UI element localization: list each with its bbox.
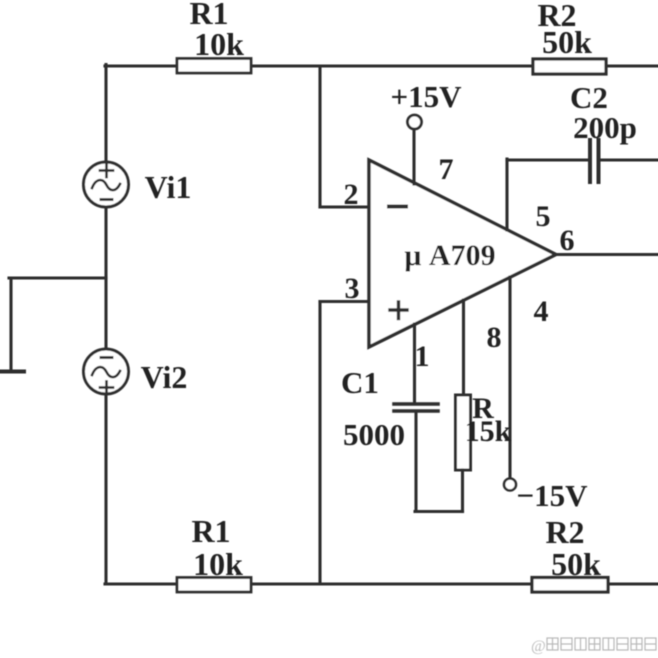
wire pin8 vertical to R bbox=[462, 300, 465, 396]
op-amp U1 triangle bbox=[369, 160, 556, 347]
svg-text:8: 8 bbox=[487, 321, 502, 354]
resistor R1 top body bbox=[177, 59, 251, 74]
source Vi1 circle bbox=[84, 162, 129, 207]
source Vi2 plus bbox=[100, 382, 113, 395]
wire pin4 vertical to -15V bbox=[508, 277, 511, 478]
source Vi2 circle bbox=[84, 349, 129, 394]
source Vi2 sine bbox=[92, 367, 120, 377]
svg-text:Vi1: Vi1 bbox=[145, 169, 192, 205]
resistor R1 bottom body bbox=[177, 578, 251, 593]
source Vi1 sine bbox=[92, 180, 120, 190]
ground bbox=[0, 370, 24, 374]
svg-text:R1: R1 bbox=[191, 513, 230, 549]
svg-text:50k: 50k bbox=[542, 24, 592, 60]
op-amp plus input marker bbox=[390, 302, 407, 319]
wire top horizontal bus bbox=[105, 64, 658, 67]
svg-text:4: 4 bbox=[534, 295, 549, 328]
wire pin7 V+ supply bbox=[412, 129, 415, 184]
wire pin2 vertical from top bus bbox=[318, 66, 321, 207]
svg-text:10k: 10k bbox=[193, 546, 243, 582]
svg-text:1: 1 bbox=[415, 340, 430, 373]
svg-text:@: @ bbox=[531, 638, 546, 655]
wire pin3 horizontal from op-amp bbox=[320, 300, 369, 303]
source Vi1 plus bbox=[100, 165, 113, 178]
wire ground branch horizontal bbox=[9, 276, 106, 279]
wire ground branch vertical bbox=[9, 278, 12, 370]
svg-text:10k: 10k bbox=[194, 26, 244, 62]
svg-text:7: 7 bbox=[439, 153, 454, 186]
wire pin5 vertical bbox=[505, 159, 508, 230]
wire below R bbox=[461, 470, 464, 512]
wire pin3 vertical to bottom bus bbox=[318, 302, 321, 585]
resistor R2 top body bbox=[533, 59, 606, 74]
svg-text:15k: 15k bbox=[465, 415, 512, 448]
capacitor C2 bbox=[590, 140, 599, 182]
svg-text:μ A709: μ A709 bbox=[404, 239, 495, 272]
source Vi2 minus bbox=[101, 356, 112, 359]
wire pin2 horizontal into op-amp bbox=[320, 205, 369, 208]
svg-text:6: 6 bbox=[560, 224, 575, 257]
resistor R2 bottom body bbox=[532, 578, 608, 593]
wire C2 left horizontal bbox=[507, 158, 588, 161]
wire C2 right horizontal bbox=[601, 158, 658, 161]
resistor R 15k body bbox=[456, 395, 471, 470]
node -15V terminal circle bbox=[504, 479, 516, 491]
svg-text:+15V: +15V bbox=[390, 79, 462, 114]
wire left vertical bus bbox=[104, 65, 107, 585]
svg-text:−15V: −15V bbox=[516, 478, 588, 513]
wire C1-R junction horizontal bbox=[415, 510, 463, 513]
capacitor C1 bbox=[394, 404, 438, 411]
wire pin1 vertical to C1 bbox=[413, 324, 416, 402]
node +15V terminal circle bbox=[408, 115, 422, 129]
svg-text:Vi2: Vi2 bbox=[141, 359, 188, 395]
svg-text:2: 2 bbox=[344, 178, 359, 211]
svg-text:3: 3 bbox=[345, 272, 360, 305]
wire bottom horizontal bus bbox=[105, 582, 658, 585]
wire output pin6 bbox=[556, 253, 658, 256]
wire below C1 bbox=[414, 412, 417, 512]
watermark bbox=[531, 638, 656, 655]
svg-text:C1: C1 bbox=[341, 365, 379, 400]
svg-text:50k: 50k bbox=[551, 546, 601, 582]
svg-text:200p: 200p bbox=[573, 110, 637, 145]
svg-text:5: 5 bbox=[536, 200, 551, 233]
svg-text:R2: R2 bbox=[545, 514, 584, 550]
svg-text:5000: 5000 bbox=[343, 417, 405, 452]
source Vi1 minus bbox=[101, 198, 112, 201]
op-amp minus input marker bbox=[389, 205, 406, 209]
